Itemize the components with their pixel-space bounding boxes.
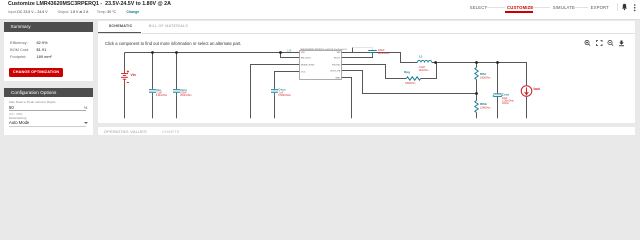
node VIN junction EN_UVLO — [279, 51, 282, 54]
svg-text:EN_UVLO: EN_UVLO — [301, 58, 312, 60]
capacitor Cinx — [173, 87, 180, 95]
svg-text:Cout: Cout — [502, 93, 509, 97]
wire pgood to rpg — [342, 65, 407, 79]
main schematic card — [98, 21, 636, 123]
wire gnd drop — [342, 78, 352, 119]
wire vin vertical — [124, 53, 126, 71]
wire cboot bottom / boot pin — [342, 55, 373, 57]
toolbar icons — [584, 39, 626, 47]
download icon — [619, 41, 624, 47]
svg-text:Rpg: Rpg — [404, 70, 410, 74]
wire sw to L1 — [342, 53, 418, 63]
svg-text:26.8mOhm: 26.8mOhm — [180, 95, 191, 97]
wire rpg to rail — [421, 63, 437, 79]
wire cboot stub — [352, 48, 354, 53]
sidebar summary card — [4, 22, 94, 82]
resistor Rpg — [406, 77, 420, 80]
regulator IC U1 — [300, 48, 348, 80]
header — [0, 0, 640, 20]
svg-text:4.44mOhm: 4.44mOhm — [156, 95, 167, 97]
node VOUT junction Rpg — [434, 61, 437, 64]
svg-text:Vin: Vin — [131, 73, 136, 77]
svg-text:VCC: VCC — [301, 72, 306, 74]
svg-text:Cvcc: Cvcc — [278, 88, 286, 92]
kebab menu — [633, 4, 637, 12]
svg-text:10mOhm: 10mOhm — [419, 69, 429, 72]
node VIN junction Cin — [151, 51, 154, 54]
sidebar config card — [4, 88, 94, 136]
wire rfbt leads — [476, 63, 478, 68]
svg-text:PGOOD: PGOOD — [332, 65, 341, 67]
inductor L1 — [417, 60, 431, 62]
wire iout bottom — [526, 97, 528, 118]
load Iout — [521, 86, 532, 97]
top nav steps — [470, 5, 488, 10]
node VOUT junction Rfbt — [475, 61, 478, 64]
svg-text:VOUT_FB: VOUT_FB — [330, 71, 341, 73]
wire mode_sync — [251, 65, 300, 119]
resistor Rfbb — [475, 101, 478, 113]
svg-text:5.523mOhm: 5.523mOhm — [278, 95, 291, 97]
resistor Rfbt — [475, 68, 478, 80]
svg-text:Iout: Iout — [534, 87, 541, 91]
node VOUT junction Cout — [496, 61, 499, 64]
svg-text:124kOhm: 124kOhm — [480, 107, 490, 110]
wire rfbb leads — [476, 94, 478, 101]
svg-text:100kOhm: 100kOhm — [480, 77, 490, 80]
wire cout vertical — [497, 63, 499, 94]
wire vout_fb — [342, 71, 477, 94]
svg-text:LMR43620MSC3RPERQ1 t=40C/W 3.0: LMR43620MSC3RPERQ1 t=40C/W 3.0x3.0x0.6 S — [300, 48, 347, 51]
bottom partial card — [98, 127, 636, 135]
svg-text:49.9mOhm: 49.9mOhm — [378, 52, 390, 55]
svg-text:1.25: 1.25 — [287, 50, 292, 53]
zoom out icon — [608, 40, 613, 45]
wire en_uvlo jog — [281, 53, 300, 58]
svg-text:L1: L1 — [419, 55, 423, 59]
wire cin vertical — [152, 53, 154, 89]
zoom in icon — [585, 40, 590, 45]
node FB junction — [475, 92, 478, 95]
capacitor Cboot — [368, 51, 377, 56]
bell icon — [621, 3, 628, 11]
svg-text:GND: GND — [335, 77, 340, 79]
wire output rail — [432, 63, 527, 86]
schematic svg — [97, 33, 635, 123]
svg-text:BOOT: BOOT — [334, 57, 341, 59]
voltage source Vin — [121, 70, 129, 85]
capacitor Cout — [493, 94, 501, 97]
capacitor Cvcc — [271, 87, 278, 95]
svg-text:16Vrm: 16Vrm — [502, 102, 509, 105]
capacitor Cin — [149, 87, 156, 95]
wire cinx vertical — [176, 53, 178, 89]
wire cboot faint link — [353, 48, 373, 51]
svg-text:Rfbb: Rfbb — [480, 102, 487, 106]
svg-text:100kOhm: 100kOhm — [405, 82, 415, 85]
wire vcc — [275, 72, 300, 89]
svg-text:MODE_SYNC: MODE_SYNC — [301, 65, 315, 67]
fullscreen icon — [597, 41, 603, 46]
wire top rail — [125, 52, 300, 54]
node VIN junction Cinx — [175, 51, 178, 54]
svg-text:VIN: VIN — [301, 52, 305, 54]
